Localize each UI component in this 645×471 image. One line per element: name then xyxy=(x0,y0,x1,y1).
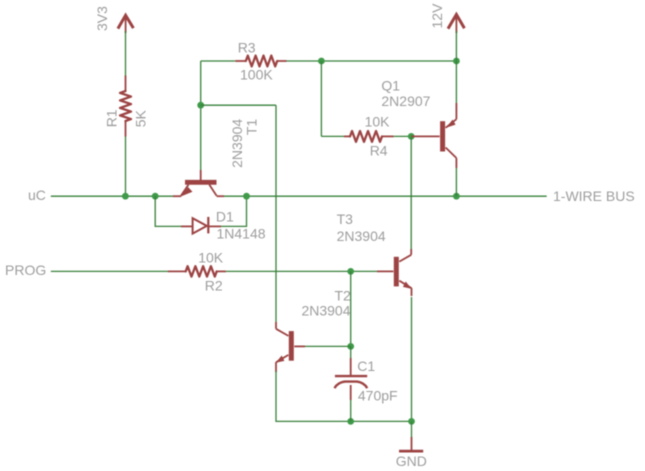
wire T1 base up xyxy=(200,61,202,170)
diode D1 xyxy=(181,225,193,227)
transistor Q1 xyxy=(411,135,439,137)
svg-text:100K: 100K xyxy=(240,67,273,83)
capacitor C1 xyxy=(350,358,352,376)
wire down to R4 xyxy=(320,61,322,136)
wire to GND xyxy=(411,421,413,438)
junction top/12V xyxy=(453,58,460,65)
junction uC/R1 xyxy=(122,193,129,200)
wire PROG to T2 base xyxy=(350,271,352,346)
resistor R4 xyxy=(344,135,350,137)
svg-text:1-WIRE BUS: 1-WIRE BUS xyxy=(553,188,635,204)
svg-text:PROG: PROG xyxy=(5,262,46,278)
resistor R3 xyxy=(235,60,246,62)
svg-text:R1: R1 xyxy=(103,109,119,127)
junction PROG/T2 base xyxy=(347,268,354,275)
wire Q1 collector to bus xyxy=(455,168,457,196)
svg-text:GND: GND xyxy=(396,453,427,469)
svg-text:R3: R3 xyxy=(238,40,256,56)
svg-text:2N3904: 2N3904 xyxy=(337,228,386,244)
wire T2 emitter to gnd rail xyxy=(276,371,412,421)
wire 1-wire bus xyxy=(224,195,547,197)
svg-text:2N2907: 2N2907 xyxy=(381,93,430,109)
junction top/R4 branch xyxy=(318,58,325,65)
svg-text:12V: 12V xyxy=(429,3,445,29)
svg-text:D1: D1 xyxy=(216,208,234,224)
junction T1 base node xyxy=(197,102,204,109)
svg-text:Q1: Q1 xyxy=(381,78,400,94)
resistor R1 xyxy=(125,76,127,92)
wire node to T2 branch xyxy=(201,104,276,106)
wire R4 to node xyxy=(394,135,412,137)
resistor R2 xyxy=(168,270,186,272)
junction bus/Q1 xyxy=(453,193,460,200)
svg-text:470pF: 470pF xyxy=(358,387,398,403)
wire down to T2 collector xyxy=(275,105,277,322)
svg-text:10K: 10K xyxy=(198,249,224,265)
wire top right xyxy=(287,60,457,62)
supply arrow 3V3 xyxy=(118,15,133,28)
wire to R4 xyxy=(321,135,344,137)
wire uC xyxy=(51,195,174,197)
wire R1 to uC net xyxy=(125,137,127,197)
junction bus/D1 xyxy=(243,193,250,200)
svg-text:3V3: 3V3 xyxy=(94,6,110,31)
svg-text:5K: 5K xyxy=(132,110,148,128)
junction R4/Q1 base/T3 xyxy=(408,133,415,140)
svg-text:10K: 10K xyxy=(365,113,391,129)
wire PROG xyxy=(51,270,168,272)
wire R2 to T3 base xyxy=(226,270,377,272)
svg-text:R2: R2 xyxy=(205,278,223,294)
svg-text:T1: T1 xyxy=(244,119,260,136)
wire 12V to node xyxy=(455,31,457,61)
wire Q1 emitter to 12V xyxy=(455,61,457,103)
ground symbol xyxy=(411,437,413,451)
wire uC down to D1 xyxy=(155,196,181,226)
svg-text:C1: C1 xyxy=(357,358,375,374)
transistor T2 xyxy=(294,345,305,347)
junction rail/C1 xyxy=(347,418,354,425)
junction uC/D1 xyxy=(152,193,159,200)
svg-text:T3: T3 xyxy=(337,211,354,227)
transistor T1 xyxy=(200,170,202,180)
wire T2 base xyxy=(304,345,351,347)
wire 3V3 to R1 xyxy=(125,31,127,76)
transistor T3 xyxy=(377,270,393,272)
svg-text:T2: T2 xyxy=(334,288,351,304)
wire node down to T3 xyxy=(410,136,412,249)
supply arrow 12V xyxy=(448,15,464,29)
junction rail/T3/GND xyxy=(408,418,415,425)
svg-text:2N3904: 2N3904 xyxy=(301,303,350,319)
wire D1 to bus xyxy=(221,196,247,226)
svg-text:uC: uC xyxy=(28,187,46,203)
wire top left xyxy=(201,60,236,62)
junction T2 base/C1 xyxy=(347,343,354,350)
svg-text:R4: R4 xyxy=(370,142,388,158)
wire T2 base to C1 xyxy=(350,346,352,359)
wire T3 emitter down xyxy=(411,297,413,421)
svg-text:1N4148: 1N4148 xyxy=(217,226,266,242)
wire C1 to rail xyxy=(350,400,352,421)
